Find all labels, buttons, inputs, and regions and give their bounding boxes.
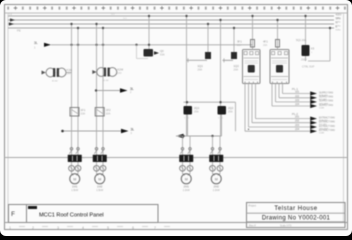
svg-text:1F1: 1F1 bbox=[81, 108, 86, 112]
svg-text:A1 A2: A1 A2 bbox=[103, 79, 110, 82]
svg-text:EXTRACT FAN: EXTRACT FAN bbox=[319, 121, 335, 124]
svg-text:20A: 20A bbox=[263, 44, 268, 47]
svg-text:2: 2 bbox=[32, 226, 34, 230]
svg-text:M: M bbox=[73, 177, 76, 181]
svg-text:5Q1 16A: 5Q1 16A bbox=[296, 38, 307, 42]
svg-text:A1 A2: A1 A2 bbox=[52, 79, 59, 82]
svg-text:K1M: K1M bbox=[67, 68, 73, 72]
svg-text:1: 1 bbox=[311, 52, 313, 54]
svg-text:3: 3 bbox=[57, 226, 59, 230]
svg-text:20A: 20A bbox=[198, 67, 203, 71]
svg-text:E: E bbox=[336, 25, 338, 29]
svg-text:SUPPLY FAN: SUPPLY FAN bbox=[319, 96, 333, 99]
svg-text:3L: 3L bbox=[130, 87, 134, 91]
svg-text:50Hz: 50Hz bbox=[336, 29, 341, 31]
svg-text:104: 104 bbox=[295, 103, 300, 106]
svg-text:K2M: K2M bbox=[117, 68, 123, 72]
svg-text:SUPPLY FAN: SUPPLY FAN bbox=[319, 100, 333, 103]
svg-text:1 3 5: 1 3 5 bbox=[184, 117, 190, 119]
svg-text:2M2: 2M2 bbox=[214, 185, 220, 189]
svg-text:24V: 24V bbox=[67, 73, 72, 76]
svg-text:Drawing No Y0002-001: Drawing No Y0002-001 bbox=[262, 216, 331, 222]
svg-text:1: 1 bbox=[34, 47, 36, 50]
svg-text:1 3 5: 1 3 5 bbox=[218, 117, 224, 119]
svg-text:2Q2: 2Q2 bbox=[228, 106, 234, 110]
svg-text:25A: 25A bbox=[194, 110, 199, 114]
svg-text:6: 6 bbox=[132, 226, 134, 230]
svg-text:3L: 3L bbox=[34, 41, 38, 45]
svg-text:20A: 20A bbox=[234, 67, 239, 71]
svg-text:201: 201 bbox=[295, 116, 300, 119]
svg-text:L1: L1 bbox=[9, 12, 13, 16]
svg-text:5: 5 bbox=[107, 226, 109, 230]
svg-text:2: 2 bbox=[130, 91, 132, 94]
svg-text:3L: 3L bbox=[131, 127, 135, 131]
svg-text:63A: 63A bbox=[160, 52, 165, 56]
svg-text:2.2kW: 2.2kW bbox=[213, 189, 221, 192]
svg-text:EXTRACT FAN: EXTRACT FAN bbox=[319, 129, 335, 132]
svg-text:25A: 25A bbox=[228, 110, 233, 114]
svg-text:2M1: 2M1 bbox=[184, 185, 190, 189]
svg-text:COM: COM bbox=[319, 133, 324, 135]
svg-text:1M1: 1M1 bbox=[72, 185, 78, 189]
svg-text:2.2kW: 2.2kW bbox=[183, 189, 191, 192]
svg-text:102: 102 bbox=[295, 95, 300, 98]
svg-text:1Q2: 1Q2 bbox=[234, 64, 240, 68]
svg-text:1Q1: 1Q1 bbox=[198, 64, 204, 68]
svg-text:CTRL SUP: CTRL SUP bbox=[302, 66, 315, 69]
svg-text:MCC1 Roof Control Panel: MCC1 Roof Control Panel bbox=[39, 213, 104, 219]
svg-text:SUPPLY FAN: SUPPLY FAN bbox=[319, 91, 333, 94]
svg-text:M: M bbox=[98, 177, 101, 181]
svg-text:COM: COM bbox=[319, 107, 324, 109]
svg-text:Q0: Q0 bbox=[160, 49, 164, 53]
svg-text:203: 203 bbox=[295, 124, 300, 127]
svg-text:1F2: 1F2 bbox=[106, 108, 111, 112]
svg-text:Rev F: Rev F bbox=[249, 223, 256, 227]
svg-text:Scale NTS: Scale NTS bbox=[280, 224, 292, 227]
svg-text:3: 3 bbox=[131, 132, 133, 135]
svg-text:1.5kW: 1.5kW bbox=[96, 189, 104, 192]
svg-text:N: N bbox=[336, 21, 338, 25]
svg-text:K5: K5 bbox=[311, 47, 315, 51]
svg-text:▸: ▸ bbox=[248, 127, 250, 131]
svg-text:101: 101 bbox=[295, 91, 300, 94]
svg-text:EXTRACT FAN: EXTRACT FAN bbox=[319, 116, 335, 119]
svg-text:103: 103 bbox=[295, 99, 300, 102]
svg-text:400V: 400V bbox=[336, 13, 342, 17]
svg-text:1: 1 bbox=[9, 226, 11, 230]
svg-text:PE: PE bbox=[17, 29, 21, 33]
svg-text:1.5kW: 1.5kW bbox=[71, 189, 79, 192]
svg-text:10A: 10A bbox=[81, 111, 86, 115]
svg-text:202: 202 bbox=[295, 120, 300, 123]
svg-text:4: 4 bbox=[82, 226, 84, 230]
svg-text:Telstar House: Telstar House bbox=[274, 206, 317, 212]
svg-text:24V: 24V bbox=[117, 72, 122, 75]
svg-text:F: F bbox=[11, 211, 15, 218]
svg-text:204: 204 bbox=[295, 128, 300, 131]
svg-text:M: M bbox=[185, 177, 188, 181]
svg-text:SUPPLY FAN: SUPPLY FAN bbox=[319, 104, 333, 107]
svg-text:20A: 20A bbox=[237, 44, 242, 47]
svg-text:1M2: 1M2 bbox=[97, 185, 103, 189]
svg-text:10A: 10A bbox=[106, 111, 111, 115]
svg-text:Project: Project bbox=[249, 205, 257, 208]
svg-text:3PH: 3PH bbox=[336, 17, 341, 21]
svg-text:M: M bbox=[215, 177, 218, 181]
svg-text:2Q1: 2Q1 bbox=[194, 106, 200, 110]
svg-text:230V: 230V bbox=[301, 59, 307, 62]
svg-text:7: 7 bbox=[154, 226, 156, 230]
svg-text:EXTRACT FAN: EXTRACT FAN bbox=[319, 125, 335, 128]
